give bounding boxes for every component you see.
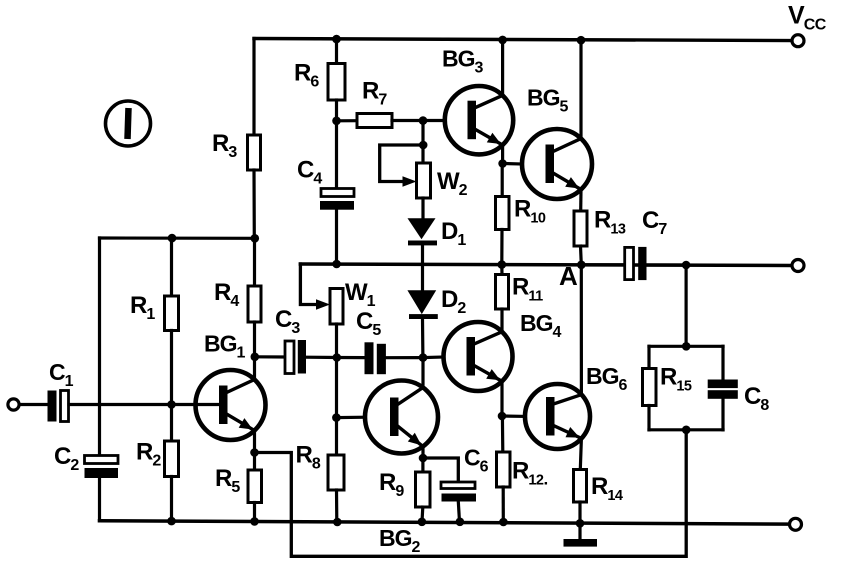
label R2 [136, 439, 161, 470]
resistor R13 [574, 211, 587, 246]
wire R2 bottom [170, 477, 173, 522]
label R3 [212, 130, 237, 161]
capacitor C5 [365, 342, 386, 374]
junction box top [682, 342, 691, 351]
label D2 [441, 286, 466, 317]
label C3 [275, 306, 300, 337]
wire C2 bottom [98, 478, 101, 521]
label BG3 [442, 46, 484, 77]
junction R7 / W2 branch [419, 116, 428, 125]
junction bottom rail / R5 [250, 517, 259, 526]
junction bottom rail / R8 [333, 518, 342, 527]
wire R7 left [337, 119, 358, 122]
junction box bottom [682, 426, 691, 435]
wire R14 bottom [578, 502, 581, 523]
junction BG1 collector / C3 [251, 353, 260, 362]
wire input to C1 [20, 403, 48, 406]
terminal Vcc [792, 35, 804, 47]
diode D2 [407, 290, 437, 319]
junction BG4 base / D2 / BG2 collector [419, 353, 428, 362]
transistor BG4 [444, 322, 513, 391]
wire W1 node to C5 [337, 356, 365, 359]
wire BG1 collector to C3 [255, 355, 285, 358]
wire C1 to BG1 base [69, 403, 196, 406]
label W2 [437, 168, 468, 199]
junction bottom rail / R12 [499, 518, 508, 527]
wire R4 top [253, 238, 256, 286]
label R15 [660, 364, 692, 395]
resistor R2 [165, 441, 179, 477]
wire Vcc top rail [254, 39, 792, 41]
junction top rail / BG3 collector [498, 36, 507, 45]
label BG6 [586, 363, 628, 394]
label W1 [345, 279, 376, 310]
wire BG1 base [196, 403, 221, 406]
potentiometer W1 [330, 289, 343, 325]
junction top rail / BG5 collector [577, 36, 586, 45]
wire R1 top [170, 238, 173, 296]
resistor R4 [248, 286, 261, 322]
wire box left bottom [647, 406, 650, 430]
terminal input [8, 399, 19, 410]
wire column to BG2 base [335, 358, 338, 418]
wire R3 bottom to bias node [252, 170, 256, 238]
junction BG2 base column [332, 413, 341, 422]
wire node to BG4 base [423, 355, 444, 359]
ground [564, 523, 598, 546]
label R1 [130, 292, 155, 323]
wire R5 bottom [253, 503, 256, 522]
resistor R9 [416, 472, 431, 507]
junction signal line / W1 / C5 [333, 353, 342, 362]
wire W2 bottom to D1 [421, 198, 424, 219]
label R7 [362, 78, 387, 109]
junction BG4 emitter / BG6 base / R12 [498, 412, 507, 421]
wire R6 top [335, 39, 338, 63]
junction top rail / R6 [332, 35, 341, 44]
figure label I (circled) [106, 101, 151, 146]
capacitor C1 [48, 391, 69, 422]
resistor R6 [328, 64, 345, 101]
wire W2 top [421, 121, 424, 163]
junction bottom rail / C6 [456, 518, 465, 527]
wire R2 top [170, 405, 173, 442]
label node A [559, 261, 578, 291]
label BG1 [204, 331, 246, 362]
wire R9 top [421, 458, 424, 472]
wire R1 bottom [170, 331, 173, 405]
junction mid line / C4 W1 [332, 260, 341, 269]
resistor R11 [496, 275, 509, 310]
wire BG6 base [502, 414, 525, 418]
wire R12 bottom [502, 487, 505, 522]
label C4 [297, 157, 322, 188]
wire BG1 emitter [253, 431, 256, 453]
wire bias line (R3R4 node to C2 branch) [100, 236, 256, 240]
junction bottom rail / ground symbol [576, 519, 585, 528]
junction BG2 emitter / R9 / C6 [419, 454, 428, 463]
wire R13 bottom [579, 246, 583, 265]
label BG4 [520, 310, 562, 341]
capacitor C8 [708, 380, 738, 399]
wire C4 top [335, 121, 338, 189]
capacitor C3 [285, 340, 306, 374]
wire box bottom side [649, 428, 723, 431]
capacitor C4 [320, 189, 354, 210]
wire feedback (BG1 emitter to R15C8 bottom) [255, 430, 687, 557]
label C1 [49, 359, 74, 390]
wire mid output line [300, 264, 791, 266]
wire mid line to C7 [581, 263, 624, 266]
wire R4 bottom to BG1 collector node [253, 322, 256, 357]
transistor BG6 [525, 384, 590, 449]
junction mid line / R10 R11 [498, 260, 507, 269]
wire BG6 collector to mid line [580, 265, 583, 395]
resistor R1 [165, 296, 179, 331]
transistor BG1 (input stage) [196, 370, 266, 440]
wire D2 to BG4 base node [421, 319, 425, 358]
wire BG2 collector [421, 358, 424, 388]
label R4 [214, 279, 239, 310]
wire output node down to box [684, 265, 687, 346]
capacitor C2 [85, 456, 119, 479]
label R10 [514, 196, 546, 227]
wire R5 top [253, 453, 256, 471]
resistor R14 [574, 470, 587, 503]
junction W2 wiper tie [419, 141, 428, 150]
label C2 [54, 443, 79, 474]
wire R9 bottom [420, 507, 424, 522]
junction R6 / R7 / C4 [332, 117, 341, 126]
wire BG2 emitter [421, 446, 424, 458]
label C5 [356, 308, 381, 339]
label R14 [591, 473, 623, 504]
wire D1 to D2 (crosses mid line) [421, 245, 424, 291]
capacitor C7 [625, 247, 647, 280]
label R8 [296, 442, 321, 473]
transistor BG5 [522, 129, 592, 199]
label R5 [215, 465, 240, 496]
junction mid line / R13 BG6 collector [577, 261, 586, 270]
wire C2 top branch [98, 238, 101, 456]
wire R7 right to BG3 base [392, 119, 445, 122]
wire BG2 emitter to C6 [423, 458, 458, 482]
diode D1 [408, 218, 438, 245]
label BG2 [379, 525, 421, 556]
label BG5 [527, 85, 569, 116]
junction BG3 emitter / BG5 base / R10 [498, 159, 507, 168]
wire W2 wiper loop [380, 145, 423, 182]
wire W1 wiper bracket [300, 264, 321, 305]
label R11 [512, 274, 543, 305]
resistor R7 (horizontal) [357, 114, 392, 128]
wire R11 top [500, 265, 503, 275]
label Vcc [788, 2, 827, 34]
svg-text:A: A [559, 261, 578, 291]
transistor BG2 (driver) [365, 381, 438, 454]
resistor R12 [497, 452, 511, 487]
label C6 [464, 445, 489, 476]
junction mid line / C7 R15C8 [682, 261, 691, 270]
wire box right bottom [721, 399, 724, 430]
resistor R3 [248, 135, 261, 170]
resistor R15 [643, 369, 657, 406]
wire R8 bottom [335, 490, 338, 522]
junction bottom rail / R2 [167, 517, 176, 526]
wire C6 bottom [458, 502, 459, 522]
potentiometer W2 [417, 163, 431, 198]
wire R6 bottom [335, 100, 338, 121]
terminal output (mid right) [792, 260, 804, 272]
wire W1 bottom [335, 324, 338, 358]
wire box top side [649, 345, 723, 348]
capacitor C6 [441, 482, 476, 502]
label D1 [441, 218, 466, 249]
wire BG1 collector [253, 357, 256, 380]
junction bias line / R3R4 [251, 234, 260, 243]
arrow W2 wiper [403, 176, 417, 186]
wire column BG2base to R8 [335, 418, 338, 455]
junction bias line / R1 [168, 234, 177, 243]
arrow W1 wiper [316, 299, 330, 309]
wire R10 bottom [500, 230, 503, 265]
wire C3 to W1 node [306, 356, 337, 359]
wire BG5 emitter to R13 [579, 190, 582, 211]
label C8 [744, 383, 769, 414]
wire R3 top [252, 39, 255, 136]
wire BG5 base [503, 162, 523, 166]
wire BG3 emitter [501, 145, 504, 164]
resistor R8 [328, 455, 344, 490]
wire BG4 emitter [500, 381, 503, 416]
resistor R10 [496, 197, 510, 230]
wire C7 to output node [647, 263, 687, 266]
wire box left top [647, 346, 650, 368]
wire box right top [721, 346, 724, 379]
wire R11 to BG4 collector [500, 309, 503, 332]
label R13 [594, 207, 626, 238]
junction input line / R1 R2 [167, 400, 176, 409]
label C7 [642, 207, 667, 238]
junction bottom rail / R9 [418, 518, 427, 527]
wire ground bottom rail [100, 521, 790, 524]
terminal output return (bottom right) [790, 518, 802, 530]
wire R12 top [501, 416, 505, 452]
label R9 [379, 469, 404, 500]
wire BG3 collector [501, 40, 504, 96]
wire BG5 collector [579, 40, 582, 138]
wire BG6 emitter to R14 [580, 438, 581, 469]
junction BG1 emitter / R5 / feedback [250, 448, 259, 457]
wire BG2 base [337, 416, 366, 420]
wire R10 top [501, 164, 504, 197]
wire C4 bottom [335, 210, 338, 264]
resistor R5 [248, 470, 262, 503]
wire C5 to BG4 base node [386, 356, 423, 359]
label R6 [294, 60, 319, 91]
label R12 [512, 458, 547, 489]
transistor BG3 [445, 86, 513, 154]
